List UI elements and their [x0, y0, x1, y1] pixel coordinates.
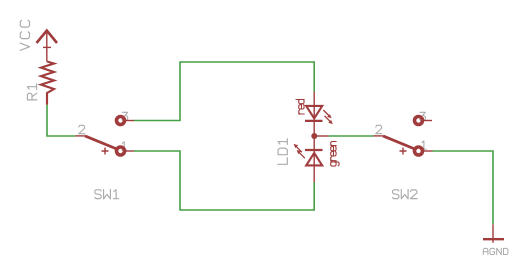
SW2 pin 3 stub: [422, 120, 432, 122]
LD1 green diode cathode bar: [305, 149, 323, 151]
LD1 red emission arrows: [323, 110, 330, 122]
SW1 pin 1 contact circle: [117, 147, 125, 155]
SW2 plus mark: [400, 148, 407, 155]
SW1 plus mark: [102, 148, 109, 155]
SW1 pin 3 contact circle: [117, 117, 125, 125]
SW1 pin 2 number: [79, 125, 85, 133]
wire R1 to SW1 pin2: [47, 105, 75, 136]
SW1 pin 1 stub: [124, 150, 134, 152]
SW1 pin 2 stub: [75, 135, 85, 137]
LED LD1: [294, 92, 333, 183]
SW2 lever: [383, 136, 416, 150]
ground AGND: [483, 224, 504, 243]
SW1 pin 3 stub: [124, 120, 134, 122]
label AGND: [483, 248, 508, 254]
label SW2: [393, 190, 418, 199]
SW1 pin 3 number: [122, 112, 128, 121]
wire SW2.1 to AGND: [433, 151, 494, 224]
label R1: [27, 84, 36, 100]
SW1 pin 1 number: [122, 142, 127, 150]
SW2 pin 2 number: [376, 125, 382, 133]
supply VCC: [37, 31, 58, 62]
LD1 junction dot: [311, 133, 317, 139]
LD1 green diode triangle: [306, 153, 322, 166]
LD1 red diode cathode bar: [305, 120, 323, 122]
SW2 pin 1 stub: [422, 150, 433, 152]
label green: [331, 142, 339, 167]
wire SW1.1 to LED bottom (lower rail): [134, 151, 314, 210]
SW2 pin 3 contact circle: [415, 117, 423, 125]
label VCC: [20, 20, 30, 50]
SW1 lever: [85, 136, 118, 150]
SW2 pin 1 number: [422, 141, 427, 149]
resistor R1: [41, 62, 54, 105]
label red: [296, 100, 304, 115]
wire LD1 junction to SW2 pin2: [329, 135, 374, 137]
label LD1: [278, 139, 287, 164]
wire LD1 junction stub: [314, 135, 328, 137]
SW2 pin 1 contact circle: [415, 147, 423, 155]
LD1 green emission arrows: [296, 146, 305, 158]
wire SW1.3 to LED top (upper rail): [134, 62, 314, 121]
SW2 pin 3 number: [420, 112, 426, 121]
LD1 axis pin: [313, 92, 315, 183]
label SW1: [95, 190, 119, 199]
switch SW2: [374, 112, 433, 199]
switch SW1: [75, 112, 134, 199]
SW2 pin 2 stub: [374, 135, 384, 137]
LD1 red diode triangle: [306, 106, 322, 119]
